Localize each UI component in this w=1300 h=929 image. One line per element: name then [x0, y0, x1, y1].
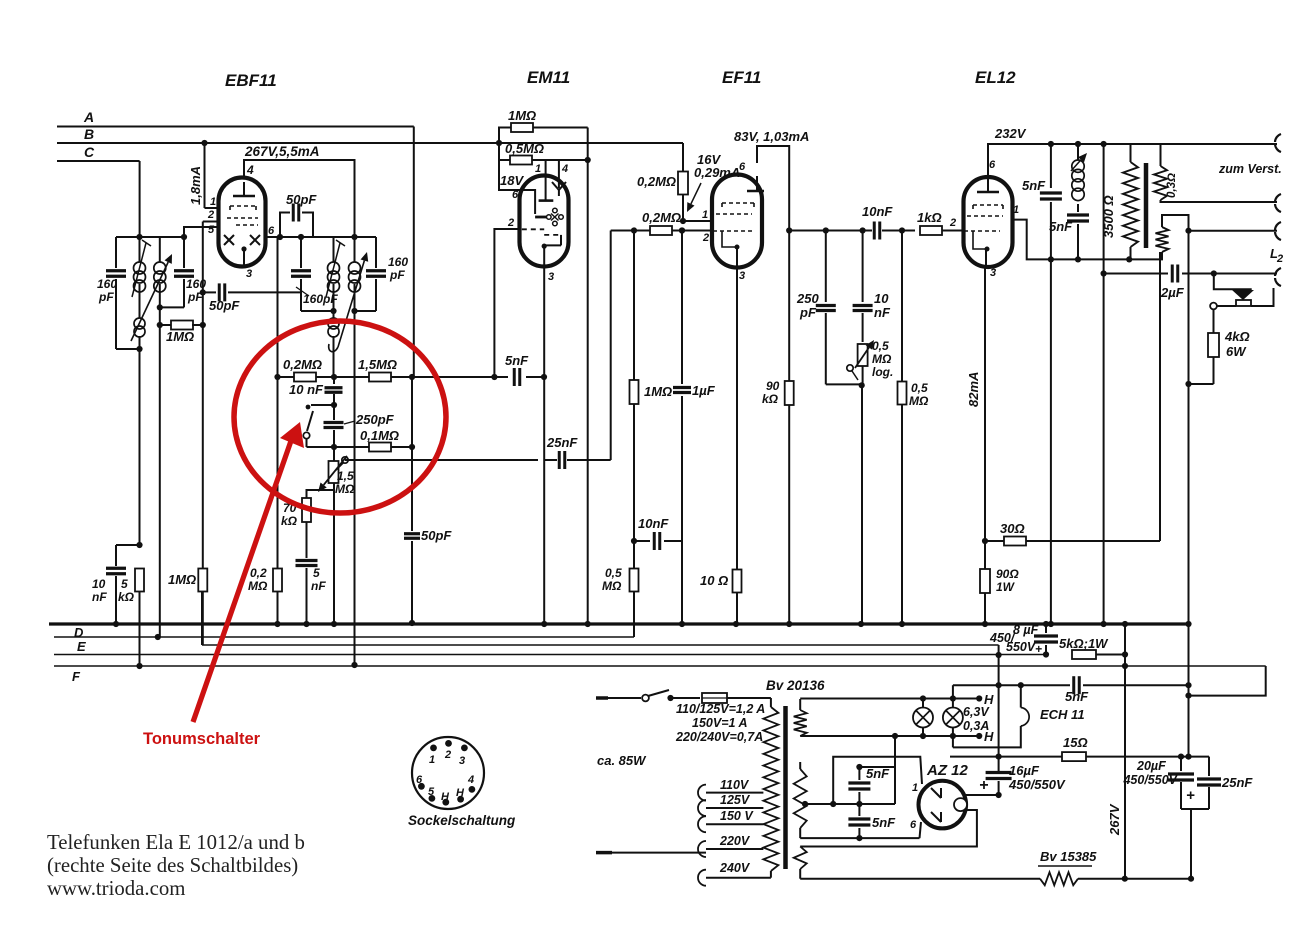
- wire jack3 row: [1189, 231, 1278, 384]
- svg-text:AZ 12: AZ 12: [926, 762, 969, 779]
- jack L2: [1275, 268, 1281, 286]
- tube label EM11: [527, 68, 570, 87]
- resistor 70k: [302, 498, 311, 558]
- EL12 anode: [977, 177, 999, 192]
- svg-text:150 V: 150 V: [720, 809, 754, 823]
- capacitor 10nF tone: [325, 377, 343, 408]
- label 5nF coupling: [505, 353, 529, 368]
- wire 25nF up: [610, 231, 612, 461]
- wire 267V vertical lower: [351, 311, 357, 668]
- wire bottom rail rect: [800, 876, 1128, 882]
- resistor 1M mid: [630, 380, 639, 570]
- svg-text:0,5: 0,5: [911, 381, 928, 395]
- resistor 1,5M tone: [334, 373, 494, 382]
- label 16uF: [979, 763, 1066, 794]
- wire E start drop: [201, 591, 203, 645]
- label 0,5M mid: [602, 566, 622, 593]
- EL12 pin3 wire: [982, 249, 988, 544]
- wire 277 vertical: [277, 237, 279, 570]
- label 1M vertical: [168, 572, 196, 587]
- filament loop: [800, 810, 977, 847]
- red label Tonumschalter: [143, 730, 261, 748]
- svg-text:220/240V=0,7A: 220/240V=0,7A: [675, 730, 763, 744]
- label 1M horizontal: [166, 329, 194, 344]
- svg-text:nF: nF: [874, 305, 891, 320]
- wire B+ vertical: [996, 645, 1002, 771]
- label 10nF series: [862, 204, 893, 219]
- label 1,5M pot: [335, 469, 355, 496]
- pot 1,5M arrow: [318, 456, 347, 492]
- svg-text:10: 10: [874, 291, 889, 306]
- svg-text:10 Ω: 10 Ω: [700, 573, 728, 588]
- EM11 internals: [520, 164, 566, 249]
- wire HV bottom: [800, 822, 921, 838]
- resistor 10 ohm: [733, 570, 742, 628]
- svg-text:15Ω: 15Ω: [1063, 735, 1088, 750]
- capacitor 10nF plate: [853, 231, 873, 343]
- secondary 0,3: [1154, 144, 1277, 202]
- label 16V 0,29mA: [694, 152, 740, 180]
- capacitor 2uF: [1104, 265, 1277, 283]
- tube EF11: [712, 175, 762, 268]
- svg-text:1,8mA: 1,8mA: [188, 166, 203, 205]
- resistor 0,5M el12grid: [898, 231, 907, 628]
- label 3500: [1101, 195, 1116, 238]
- svg-text:A: A: [83, 109, 94, 125]
- wire plate row: [786, 227, 872, 233]
- capacitor 160pF second: [157, 227, 220, 311]
- svg-text:ca. 85W: ca. 85W: [597, 753, 647, 768]
- svg-text:4: 4: [467, 774, 474, 786]
- svg-text:6W: 6W: [1226, 344, 1247, 359]
- wire bus D: [49, 622, 1189, 625]
- wire fb drop: [1101, 144, 1107, 627]
- svg-text:550V: 550V: [1006, 640, 1037, 654]
- wire bus F: [54, 665, 1266, 667]
- red arrow annotation: [193, 422, 304, 722]
- svg-text:Telefunken Ela E 1012/a und b: Telefunken Ela E 1012/a und b: [47, 831, 305, 854]
- svg-text:5: 5: [121, 577, 128, 591]
- svg-text:3: 3: [548, 271, 554, 283]
- wire fb vertical: [1159, 252, 1161, 541]
- label 83V: [734, 129, 809, 144]
- svg-text:0,29mA: 0,29mA: [694, 165, 740, 180]
- wire C drop: [139, 161, 141, 237]
- svg-text:6,3V: 6,3V: [963, 705, 990, 719]
- svg-text:0,2MΩ: 0,2MΩ: [283, 357, 322, 372]
- capacitor 10nF series: [874, 222, 915, 240]
- label 5nF ECH: [1065, 689, 1089, 704]
- label 0,5M EM11: [505, 141, 544, 156]
- lamp 1: [913, 699, 933, 736]
- primary 3500: [1123, 144, 1138, 259]
- svg-text:log.: log.: [872, 365, 893, 379]
- wire bus B: [57, 142, 683, 144]
- svg-text:1W: 1W: [996, 580, 1016, 594]
- svg-text:267V: 267V: [1107, 803, 1122, 836]
- label 5nF el12a: [1022, 178, 1046, 193]
- pot bottom bracket: [307, 490, 335, 498]
- svg-text:C: C: [84, 144, 95, 160]
- speaker terminal: [1210, 303, 1236, 310]
- resistor 0,2M fromB: [678, 172, 688, 225]
- svg-text:4kΩ: 4kΩ: [1224, 329, 1250, 344]
- svg-text:90Ω: 90Ω: [996, 567, 1019, 581]
- EM11 pin2 wire: [494, 229, 521, 377]
- svg-text:18V: 18V: [500, 173, 524, 188]
- svg-text:150V=1 A: 150V=1 A: [692, 716, 747, 730]
- capacitor 25nF psu: [1197, 779, 1221, 809]
- label ECH11: [1040, 707, 1085, 722]
- svg-text:0,2MΩ: 0,2MΩ: [642, 210, 681, 225]
- wire 83V rail: [757, 146, 789, 231]
- label D: [74, 625, 84, 640]
- tube label EL12: [975, 68, 1016, 87]
- capacitor 160pF fourth: [355, 237, 387, 311]
- label 25nF: [546, 435, 578, 450]
- jack 3: [1275, 222, 1281, 240]
- resistor 5k left bottom: [135, 569, 144, 670]
- label 250pF plate: [796, 291, 819, 320]
- label Bv 20136: [766, 678, 825, 693]
- label L2: [1270, 246, 1283, 265]
- svg-text:0,5MΩ: 0,5MΩ: [505, 141, 544, 156]
- potentiometer 0,5M log: [858, 344, 868, 388]
- svg-text:5nF: 5nF: [872, 815, 896, 830]
- tap 110V: [698, 778, 763, 801]
- svg-text:E: E: [77, 639, 86, 654]
- svg-text:F: F: [72, 669, 81, 684]
- label 18V: [500, 173, 524, 188]
- svg-text:30Ω: 30Ω: [1000, 521, 1025, 536]
- AZ12 pins: [910, 782, 918, 831]
- label 0,2M vert bottom: [248, 566, 268, 593]
- coil L2b: [349, 237, 361, 314]
- AZ12 cathode circle: [954, 798, 967, 811]
- label 90 1W: [996, 567, 1019, 594]
- label AZ12: [926, 762, 969, 779]
- capacitor 50pF lower: [203, 283, 301, 301]
- EBF11 diode plates: [224, 235, 260, 245]
- tap 150V: [698, 809, 763, 832]
- tube label EBF11: [225, 71, 277, 90]
- svg-text:160: 160: [388, 255, 408, 269]
- pot 0,5M log arrow: [855, 340, 874, 368]
- svg-text:5kΩ;1W: 5kΩ;1W: [1059, 636, 1109, 651]
- OT core: [1144, 163, 1149, 248]
- secondary 2: [1156, 215, 1192, 252]
- svg-text:pF: pF: [98, 290, 114, 304]
- svg-text:1: 1: [1013, 204, 1019, 216]
- HV tap: [802, 801, 836, 807]
- EF11 pin labels: [702, 161, 746, 282]
- L2 tuning arrow: [329, 252, 369, 352]
- caption line 3: [47, 877, 185, 900]
- wire bus 637: [54, 636, 634, 638]
- left IFT bottom rail: [116, 346, 143, 352]
- svg-text:pF: pF: [799, 305, 817, 320]
- label 50pF top: [286, 192, 317, 207]
- svg-text:25nF: 25nF: [546, 435, 578, 450]
- EM11 pin 1 4 stubs: [546, 160, 559, 168]
- svg-text:6: 6: [739, 161, 746, 173]
- svg-text:H: H: [456, 787, 465, 799]
- label Bv15385: [1038, 849, 1097, 866]
- wire OT top rail: [1131, 143, 1278, 145]
- svg-text:1MΩ: 1MΩ: [644, 384, 672, 399]
- node C label: [84, 144, 95, 160]
- wire EF11 grid1: [683, 220, 711, 222]
- svg-text:MΩ: MΩ: [909, 394, 929, 408]
- wire 267V vertical: [1122, 621, 1128, 879]
- capacitor 50pF top: [280, 204, 313, 238]
- wire sec2 bottom: [1129, 252, 1162, 259]
- jack 1: [1275, 134, 1281, 152]
- wire 1.8mA vertical: [201, 140, 207, 208]
- svg-text:2: 2: [507, 217, 514, 229]
- svg-text:10nF: 10nF: [638, 516, 669, 531]
- wire ECH wall top: [1018, 682, 1024, 707]
- svg-text:2: 2: [207, 209, 214, 221]
- wire bus A: [57, 126, 414, 128]
- capacitor 250pF plate: [816, 231, 862, 385]
- svg-text:1MΩ: 1MΩ: [508, 108, 536, 123]
- label 5nF bottom: [311, 566, 326, 593]
- resistor 1M vertical: [198, 569, 207, 646]
- svg-text:1,5: 1,5: [337, 469, 354, 483]
- tap 240V: [698, 861, 771, 886]
- HV winding: [794, 762, 807, 838]
- wire 158 down: [155, 307, 161, 640]
- label 160pF fourth: [388, 255, 408, 282]
- label 0,2M fromB: [637, 174, 676, 189]
- wire EF11 grid row: [611, 227, 637, 233]
- jack 2: [1275, 194, 1281, 212]
- svg-text:zum Verst.: zum Verst.: [1218, 162, 1282, 176]
- label 250pF tone: [344, 412, 395, 427]
- label 82mA: [966, 372, 981, 407]
- resistor 1M horizontal: [157, 321, 206, 330]
- wire bus E: [202, 644, 999, 646]
- svg-text:kΩ: kΩ: [281, 514, 298, 528]
- label 5k1W: [1059, 636, 1109, 651]
- svg-text:10nF: 10nF: [862, 204, 893, 219]
- svg-text:0,2: 0,2: [250, 566, 267, 580]
- wire audio row: [412, 374, 498, 380]
- label 0,5M log: [872, 339, 893, 379]
- svg-text:H: H: [441, 791, 450, 803]
- label 1M mid: [644, 384, 672, 399]
- coil L1a slug: [132, 240, 151, 297]
- svg-text:MΩ: MΩ: [335, 482, 355, 496]
- tube label EF11: [722, 68, 761, 87]
- wire 25nF corner: [1189, 757, 1210, 776]
- svg-text:10: 10: [92, 577, 106, 591]
- svg-text:5: 5: [313, 566, 320, 580]
- svg-text:1: 1: [210, 196, 216, 208]
- svg-text:0,5: 0,5: [872, 339, 889, 353]
- red circle annotation: [234, 321, 446, 513]
- capacitor 10nF mid: [654, 532, 682, 550]
- EF11 internals: [713, 203, 754, 250]
- mains stub 1: [596, 696, 641, 700]
- label 160pF third: [296, 287, 338, 306]
- label 1,5M tone: [358, 357, 397, 372]
- capacitor 5nF el12b: [1067, 215, 1089, 259]
- svg-text:(rechte Seite des Schaltbildes: (rechte Seite des Schaltbildes): [47, 854, 298, 877]
- label H top: [984, 692, 994, 707]
- svg-text:1: 1: [702, 209, 708, 221]
- svg-text:2: 2: [702, 232, 709, 244]
- svg-text:3: 3: [990, 267, 996, 279]
- EBF11 pin6 wire: [265, 236, 280, 238]
- label 0,5M el12grid: [909, 381, 929, 408]
- resistor 0,1M tone: [334, 443, 415, 452]
- svg-text:Tonumschalter: Tonumschalter: [143, 730, 261, 748]
- wire rect mid: [833, 733, 898, 804]
- svg-text:267V,5,5mA: 267V,5,5mA: [244, 144, 320, 159]
- svg-text:2: 2: [444, 749, 451, 761]
- capacitor 5nF bottom: [296, 561, 318, 628]
- label 160pF left: [97, 277, 117, 304]
- svg-text:8 µF: 8 µF: [1013, 623, 1039, 637]
- label 20uF: [1122, 759, 1195, 804]
- heater bottom rail: [800, 733, 982, 739]
- svg-text:1: 1: [535, 163, 541, 175]
- capacitor 1uF: [673, 227, 691, 627]
- wire right drop: [1185, 384, 1191, 760]
- svg-text:5nF: 5nF: [866, 766, 890, 781]
- coil L1a: [134, 237, 146, 318]
- svg-text:6: 6: [989, 159, 996, 171]
- label 267V,5,5mA: [244, 144, 320, 159]
- resistor 30: [985, 537, 1160, 546]
- label 5k left bottom: [118, 577, 135, 604]
- svg-text:2: 2: [949, 217, 956, 229]
- H bottom dot: [984, 729, 994, 744]
- wire 5nF ECH row: [953, 682, 1070, 688]
- svg-text:H: H: [984, 729, 994, 744]
- resistor 1M EM11: [499, 123, 588, 159]
- label 267V: [1107, 803, 1122, 836]
- svg-text:1: 1: [912, 782, 918, 794]
- tube EM11: [520, 176, 569, 267]
- wire ECH loop: [950, 685, 1021, 747]
- wire 1M EM11grid vert: [633, 231, 635, 381]
- svg-text:+: +: [1035, 642, 1042, 656]
- label 10nF mid: [638, 516, 669, 531]
- wire 232V rail: [988, 141, 1131, 177]
- wire F right corner: [1189, 666, 1266, 696]
- resistor 0,2M vert bottom: [273, 569, 282, 628]
- svg-text:ECH 11: ECH 11: [1040, 707, 1085, 722]
- svg-text:240V: 240V: [719, 861, 751, 875]
- label 10nF left bottom: [92, 577, 107, 604]
- wire 10nF mid row: [631, 538, 650, 544]
- svg-text:+: +: [979, 777, 988, 794]
- label 50pF lower: [209, 298, 240, 313]
- coil el12: [1071, 144, 1087, 212]
- svg-text:450/550V: 450/550V: [1008, 777, 1066, 792]
- svg-text:kΩ: kΩ: [762, 392, 779, 406]
- EF11 pin3 wire: [736, 248, 738, 570]
- tube EL12: [964, 177, 1013, 267]
- svg-text:5: 5: [208, 224, 215, 236]
- resistor 5k1W: [1072, 650, 1128, 659]
- svg-text:250: 250: [796, 291, 819, 306]
- label 160pF second: [186, 277, 206, 304]
- transformer core: [783, 706, 788, 869]
- svg-text:4: 4: [561, 163, 568, 175]
- capacitor 20uF: [1168, 754, 1194, 810]
- coil L2a: [328, 237, 340, 318]
- heater winding: [794, 699, 807, 736]
- capacitor 5nF rect a: [848, 764, 870, 807]
- svg-text:EF11: EF11: [722, 68, 761, 87]
- EM11 pin3 wire: [541, 246, 547, 627]
- label Sockelschaltung: [408, 813, 516, 828]
- svg-text:EL12: EL12: [975, 68, 1016, 87]
- coil L1b: [154, 237, 166, 307]
- svg-text:6: 6: [268, 225, 275, 237]
- AZ12 output wire: [964, 792, 1002, 798]
- pot 1,5M terminal: [336, 457, 348, 470]
- svg-text:83V, 1,03mA: 83V, 1,03mA: [734, 129, 809, 144]
- label 1M EM11: [508, 108, 536, 123]
- resistor 4k: [1185, 310, 1219, 388]
- svg-text:4: 4: [246, 163, 254, 177]
- potentiometer 1,5M: [329, 447, 339, 627]
- svg-text:250pF: 250pF: [355, 412, 395, 427]
- label 4k 6W: [1224, 329, 1250, 359]
- resistor 90k: [785, 231, 794, 628]
- svg-text:16µF: 16µF: [1009, 763, 1040, 778]
- svg-text:Bv 15385: Bv 15385: [1040, 849, 1097, 864]
- EBF11 grid dashes: [227, 206, 258, 225]
- label fuse amps: [675, 702, 765, 744]
- capacitor 250pF tone: [324, 405, 344, 450]
- right IFT bottom bracket: [301, 308, 337, 314]
- speaker: [1214, 274, 1274, 307]
- svg-text:0,2MΩ: 0,2MΩ: [637, 174, 676, 189]
- capacitor 16uF: [986, 773, 1012, 796]
- filament winding: [794, 847, 807, 879]
- svg-text:25nF: 25nF: [1221, 775, 1253, 790]
- label 90k: [762, 379, 780, 406]
- wire pot chain down: [858, 385, 864, 627]
- wire EM11 right loop down: [585, 160, 591, 627]
- svg-text:5nF: 5nF: [1022, 178, 1046, 193]
- svg-text:2µF: 2µF: [1160, 285, 1185, 300]
- coil L2a slug: [326, 240, 345, 297]
- socket pin labels: [416, 749, 474, 803]
- socket circle: [412, 737, 484, 809]
- socket pins: [418, 740, 475, 806]
- svg-text:+: +: [1186, 787, 1195, 804]
- EL12 internals: [964, 205, 1003, 252]
- mains switch: [642, 690, 700, 701]
- svg-text:6: 6: [416, 774, 423, 786]
- svg-text:50pF: 50pF: [421, 528, 452, 543]
- fuse: [702, 693, 771, 707]
- wire from A down: [412, 127, 414, 532]
- tap 125V: [698, 793, 763, 816]
- EBF11 cathode: [241, 246, 246, 266]
- svg-text:0,3Ω: 0,3Ω: [1166, 173, 1178, 198]
- svg-text:110V: 110V: [720, 778, 750, 792]
- label 8uF: [989, 623, 1042, 656]
- svg-text:nF: nF: [92, 590, 107, 604]
